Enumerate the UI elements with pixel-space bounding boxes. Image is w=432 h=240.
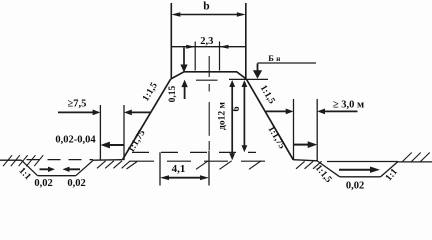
embankment centerline dash-dot (208, 56, 210, 150)
ground line left berm (93, 159, 122, 162)
left ditch flow arrow right (40, 167, 56, 172)
right ditch flow arrow (339, 167, 380, 173)
dimension b extension line right (245, 3, 247, 79)
svg-text:6: 6 (231, 107, 242, 112)
dimension >=3,0 right arrow (317, 109, 357, 115)
label 1:1,5 left slope (141, 81, 160, 103)
height dimension arrow do 12 m (229, 80, 235, 160)
original ground dashed line over left ditch (27, 159, 94, 161)
svg-text:4,1: 4,1 (172, 163, 186, 175)
svg-text:0,02: 0,02 (34, 178, 52, 189)
label 1:1,5 right ditch (313, 163, 334, 185)
slope arrow 0,02-0,04 (100, 142, 124, 149)
svg-text:≥ 3,0 м: ≥ 3,0 м (333, 100, 364, 111)
dimension b line with arrows (171, 12, 246, 16)
drainage prism outline (171, 72, 247, 79)
left extension line B (123, 105, 125, 160)
label 6 (231, 107, 242, 112)
ground hatching far left (3, 155, 43, 166)
left extension line A (99, 105, 101, 160)
natural ground dashed line under embankment (132, 151, 256, 153)
ground hatching left berm (97, 161, 130, 169)
label 0,02-0,04 (55, 135, 96, 146)
dimension >=3,0 left arrow (266, 109, 294, 115)
embankment left slope (123, 79, 171, 160)
left ditch flow arrow left (63, 167, 81, 172)
right extension line 2 (316, 99, 318, 162)
dimension 2,3 line (171, 46, 246, 48)
dimension 4,1 extension tick left (159, 152, 161, 185)
label 1:1 left ditch (16, 166, 32, 182)
left ditch right slope (76, 160, 94, 176)
label >=3,0 m (333, 100, 364, 111)
label b (203, 1, 209, 13)
svg-text:н: н (276, 55, 280, 63)
original ground line over right ditch (327, 161, 398, 163)
dimension >=7,5 right arrow (124, 110, 151, 116)
ground line far right (398, 161, 432, 163)
svg-text:Б: Б (268, 53, 274, 63)
berm slope arrow (294, 141, 318, 148)
label >=7,5 (68, 99, 87, 110)
ground line right berm (293, 160, 317, 161)
dimension 2,3 extension tick right (219, 42, 221, 71)
left ditch bottom (38, 175, 76, 177)
right ditch left slope (317, 161, 340, 177)
svg-text:2,3: 2,3 (200, 36, 213, 47)
dimension 4,1 line with arrows (160, 175, 209, 180)
dimension 2,3 right arrowhead (220, 45, 229, 49)
svg-text:0,02: 0,02 (346, 180, 364, 191)
dimension 0,15 up arrow (181, 80, 187, 99)
ground hatching far right (402, 153, 430, 163)
ground hatching right berm (296, 161, 322, 169)
svg-text:b: b (203, 1, 209, 13)
embankment right slope (246, 79, 293, 160)
right ditch bottom (340, 176, 381, 178)
shoulder level dashed line (196, 78, 268, 81)
label 0,15 (168, 85, 178, 102)
stripped ground dashed line under embankment (130, 160, 270, 162)
dimension b extension line left (170, 3, 172, 79)
svg-text:0,15: 0,15 (168, 85, 178, 102)
label 4,1 (172, 163, 186, 175)
dimension 4,1 extension tick right (208, 151, 210, 186)
dimension >=7,5 left arrow (58, 110, 100, 116)
svg-text:0,02-0,04: 0,02-0,04 (55, 135, 96, 146)
svg-text:≥7,5: ≥7,5 (68, 99, 87, 110)
label 1:1,5 right slope (258, 84, 277, 106)
dimension 2,3 extension tick left (194, 42, 196, 71)
label 2,3 (200, 36, 213, 47)
right extension line 1 (293, 99, 295, 160)
ground hatching under embankment (127, 161, 262, 170)
dimension 0,15 down arrow (180, 48, 187, 73)
label Bn with leader (253, 53, 316, 79)
svg-text:0,02: 0,02 (67, 178, 85, 189)
ground line far left (0, 159, 21, 161)
right ditch right slope 1:1 (381, 162, 398, 177)
label 1:1,75 left slope (126, 128, 147, 154)
svg-text:до12 м: до12 м (218, 102, 228, 130)
label do 12 m (218, 102, 228, 130)
label 1:1,75 right slope (265, 125, 286, 151)
label 0,02 left-a (34, 178, 52, 189)
dimension 2,3 left arrowhead (186, 45, 195, 49)
label 0,02 left-b (67, 178, 85, 189)
left ditch left slope 1:1 (21, 160, 37, 176)
label 0,02 right ditch (346, 180, 364, 191)
height dimension arrow 6 (242, 80, 248, 152)
label 1:1 right ditch (384, 167, 400, 183)
